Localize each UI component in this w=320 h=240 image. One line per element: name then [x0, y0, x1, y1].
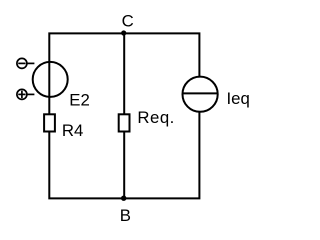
svg-text:Ieq: Ieq: [227, 89, 250, 108]
svg-text:E2: E2: [69, 91, 90, 110]
svg-text:C: C: [122, 11, 134, 30]
svg-text:R4: R4: [62, 121, 83, 140]
svg-text:B: B: [120, 206, 131, 225]
svg-text:Req.: Req.: [137, 108, 174, 127]
